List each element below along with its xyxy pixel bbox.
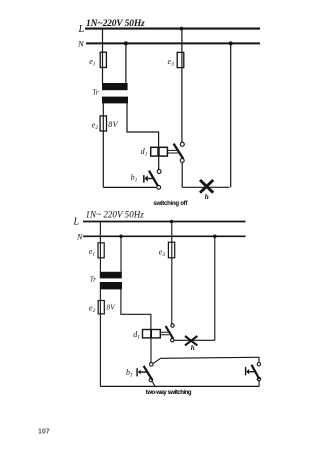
label h xyxy=(205,192,209,201)
transformer Tr primary winding xyxy=(100,272,122,279)
svg-text:e1: e1 xyxy=(89,57,96,68)
fuse e2 xyxy=(89,301,104,314)
supply annotation 1N~220V 50Hz xyxy=(86,19,145,29)
wire L to fuse e3 xyxy=(181,29,183,143)
pushbutton b2 xyxy=(245,363,261,381)
svg-text:Tr: Tr xyxy=(92,88,99,96)
transformer T primary winding xyxy=(102,83,128,90)
wire L rail xyxy=(83,221,246,223)
svg-text:d1: d1 xyxy=(133,330,140,341)
wire L to fuse e1 xyxy=(99,222,101,273)
svg-text:e3: e3 xyxy=(159,248,166,259)
svg-text:1N~ 220V 50Hz: 1N~ 220V 50Hz xyxy=(86,209,145,219)
fuse e2 xyxy=(92,116,107,131)
transformer T secondary winding xyxy=(102,97,128,104)
value label 8V xyxy=(107,303,116,311)
node L (phase label) xyxy=(73,217,80,228)
wire coil to pushbutton b1 xyxy=(150,338,152,363)
wire L to fuse e3 xyxy=(171,222,173,324)
label d1 xyxy=(133,330,140,341)
svg-text:e1: e1 xyxy=(89,247,96,257)
wire contact to lamp row xyxy=(181,162,183,187)
wire bottom control run xyxy=(103,186,156,188)
wire lamp row xyxy=(182,186,229,188)
pushbutton b1 xyxy=(136,363,153,382)
wire contact to lamp xyxy=(174,339,215,341)
lamp h xyxy=(185,336,197,345)
svg-text:8V: 8V xyxy=(108,120,118,129)
transformer Tr secondary winding xyxy=(100,282,122,289)
svg-text:L: L xyxy=(78,24,85,35)
wire N to transformer primary xyxy=(120,236,122,272)
relay contact d1 xyxy=(166,324,175,342)
wire L to fuse e1 xyxy=(102,29,104,84)
node junction on N right xyxy=(213,235,217,239)
wire traveler b1 to b2 xyxy=(153,357,259,363)
svg-text:N: N xyxy=(77,39,85,49)
lamp h xyxy=(200,180,213,193)
svg-text:N: N xyxy=(76,232,83,241)
svg-text:h: h xyxy=(205,192,209,201)
svg-text:8V: 8V xyxy=(107,303,116,311)
page number xyxy=(38,429,50,436)
svg-text:two-way switching: two-way switching xyxy=(146,390,192,396)
relay contact d1 xyxy=(174,142,185,162)
node junction on N right xyxy=(229,41,233,45)
svg-text:e2: e2 xyxy=(92,121,99,132)
wire b2 to bottom rail xyxy=(258,381,260,387)
value label 8V xyxy=(108,120,118,129)
caption switching off xyxy=(153,201,188,207)
node N (neutral label) xyxy=(76,232,83,241)
wire lamp to N xyxy=(214,236,216,340)
svg-text:e3: e3 xyxy=(168,57,175,68)
node junction on L xyxy=(170,220,174,224)
svg-text:107: 107 xyxy=(38,429,50,436)
svg-text:b1: b1 xyxy=(126,368,133,379)
fuse e1 xyxy=(89,52,106,67)
wire b1 to bottom rail xyxy=(152,382,155,387)
node junction on N xyxy=(124,41,128,45)
node N (neutral label) xyxy=(77,39,85,49)
fuse e1 xyxy=(89,243,104,258)
label h xyxy=(191,344,195,352)
wire secondary right to coil top xyxy=(127,103,159,147)
relay coil d1 xyxy=(143,330,161,338)
caption two-way switching xyxy=(146,390,192,396)
label b1 xyxy=(131,173,138,184)
svg-text:d1: d1 xyxy=(141,147,148,158)
wire N rail xyxy=(86,42,260,44)
svg-text:L: L xyxy=(73,217,80,228)
wire lamp to N xyxy=(230,43,232,187)
wire b1 to relay coil xyxy=(158,156,160,170)
wire secondary to fuse e2 xyxy=(99,289,101,386)
wire N rail xyxy=(83,235,246,237)
label b1 xyxy=(126,368,133,379)
fuse e3 xyxy=(159,242,175,258)
wire bottom rail xyxy=(100,385,259,387)
pushbutton b1 xyxy=(143,170,161,190)
wire N to transformer primary xyxy=(125,43,127,83)
svg-text:1N~220V 50Hz: 1N~220V 50Hz xyxy=(86,19,145,29)
mechanical link d1 xyxy=(160,332,169,335)
transformer Tr label xyxy=(90,276,97,284)
node junction on L xyxy=(180,27,184,31)
fuse e3 xyxy=(168,52,184,67)
svg-text:b1: b1 xyxy=(131,173,138,184)
svg-text:switching off: switching off xyxy=(153,201,188,207)
node junction on N xyxy=(119,235,123,239)
svg-text:h: h xyxy=(191,344,195,352)
node L (phase label) xyxy=(78,24,85,35)
svg-text:Tr: Tr xyxy=(90,276,97,284)
label d1 xyxy=(141,147,148,158)
relay coil d1 xyxy=(151,147,168,156)
svg-text:e2: e2 xyxy=(89,303,96,314)
mechanical link d1 xyxy=(167,150,179,153)
wire secondary right to coil top xyxy=(121,289,151,329)
wire secondary to fuse e2 xyxy=(102,103,104,187)
wire L rail xyxy=(85,28,260,30)
supply annotation 1N~ 220V 50Hz xyxy=(86,209,145,219)
transformer T label xyxy=(92,88,99,96)
